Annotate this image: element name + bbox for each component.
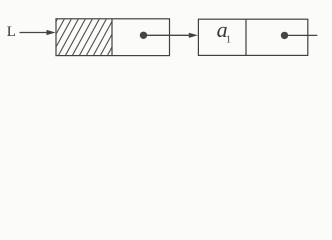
hatched data cell of header node [36,16,129,58]
divider of header node [111,19,113,56]
svg-text:L: L [7,24,16,40]
node a1 box [198,19,307,55]
pointer dot in node a1 [281,32,288,39]
wire arrow from header node to node a1 [144,33,198,38]
divider of node a1 [245,19,247,55]
pointer dot in header node [140,32,147,39]
wire arrow from L to head node [20,30,56,35]
svg-text:1: 1 [226,35,231,46]
wire stub leaving node a1 [285,34,318,36]
node header box [56,19,170,56]
